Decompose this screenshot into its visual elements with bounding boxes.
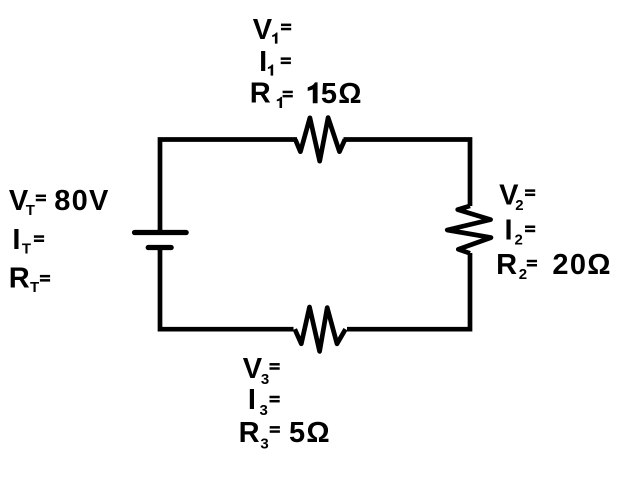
label I2= <box>505 214 536 248</box>
label V1= <box>253 14 292 46</box>
svg-text:T: T <box>26 202 35 219</box>
svg-text:I: I <box>505 214 513 246</box>
resistor R2 zigzag <box>447 206 491 253</box>
svg-text:R: R <box>496 249 517 281</box>
svg-text:5Ω: 5Ω <box>321 78 363 110</box>
wire from resistor R3 through bottom-left corner up to battery negative plate <box>160 248 294 330</box>
wire from battery positive plate up through top-left corner to resistor R1 <box>160 140 297 233</box>
label V3= <box>243 353 280 388</box>
wire from resistor R2 down through bottom-right corner to resistor R3 <box>347 253 470 329</box>
svg-text:V: V <box>253 14 273 46</box>
label IT= <box>12 224 44 258</box>
svg-text:R: R <box>250 77 271 109</box>
resistor R3 zigzag <box>295 307 346 351</box>
battery V source short plate <box>148 245 171 250</box>
label I1= <box>259 46 291 78</box>
svg-text:5Ω: 5Ω <box>289 417 331 449</box>
label R1= 15ohm <box>250 77 363 110</box>
label R2= 20ohm <box>496 249 612 283</box>
svg-text:I: I <box>248 384 256 416</box>
svg-text:2: 2 <box>515 197 523 214</box>
svg-text:T: T <box>30 279 39 296</box>
svg-text:T: T <box>22 241 31 258</box>
svg-text:3: 3 <box>260 402 268 419</box>
label VT= 80V <box>9 185 110 219</box>
svg-text:I: I <box>259 46 267 78</box>
label V2= <box>499 180 535 214</box>
label R3= 5ohm <box>239 417 331 453</box>
svg-text:20Ω: 20Ω <box>552 249 611 281</box>
svg-text:R: R <box>9 263 30 295</box>
svg-text:2: 2 <box>515 231 523 248</box>
resistor R1 zigzag <box>295 118 345 162</box>
svg-text:80V: 80V <box>54 185 109 217</box>
battery V source long plate <box>135 230 187 235</box>
wire from resistor R1 through top-right corner down to resistor R2 <box>344 140 471 207</box>
label RT= <box>9 263 50 297</box>
svg-text:V: V <box>243 353 263 385</box>
svg-text:3: 3 <box>261 371 269 388</box>
svg-text:2: 2 <box>519 266 527 283</box>
svg-text:I: I <box>12 224 20 256</box>
label I3= <box>248 384 280 419</box>
svg-text:R: R <box>239 417 260 449</box>
svg-text:3: 3 <box>260 435 268 452</box>
